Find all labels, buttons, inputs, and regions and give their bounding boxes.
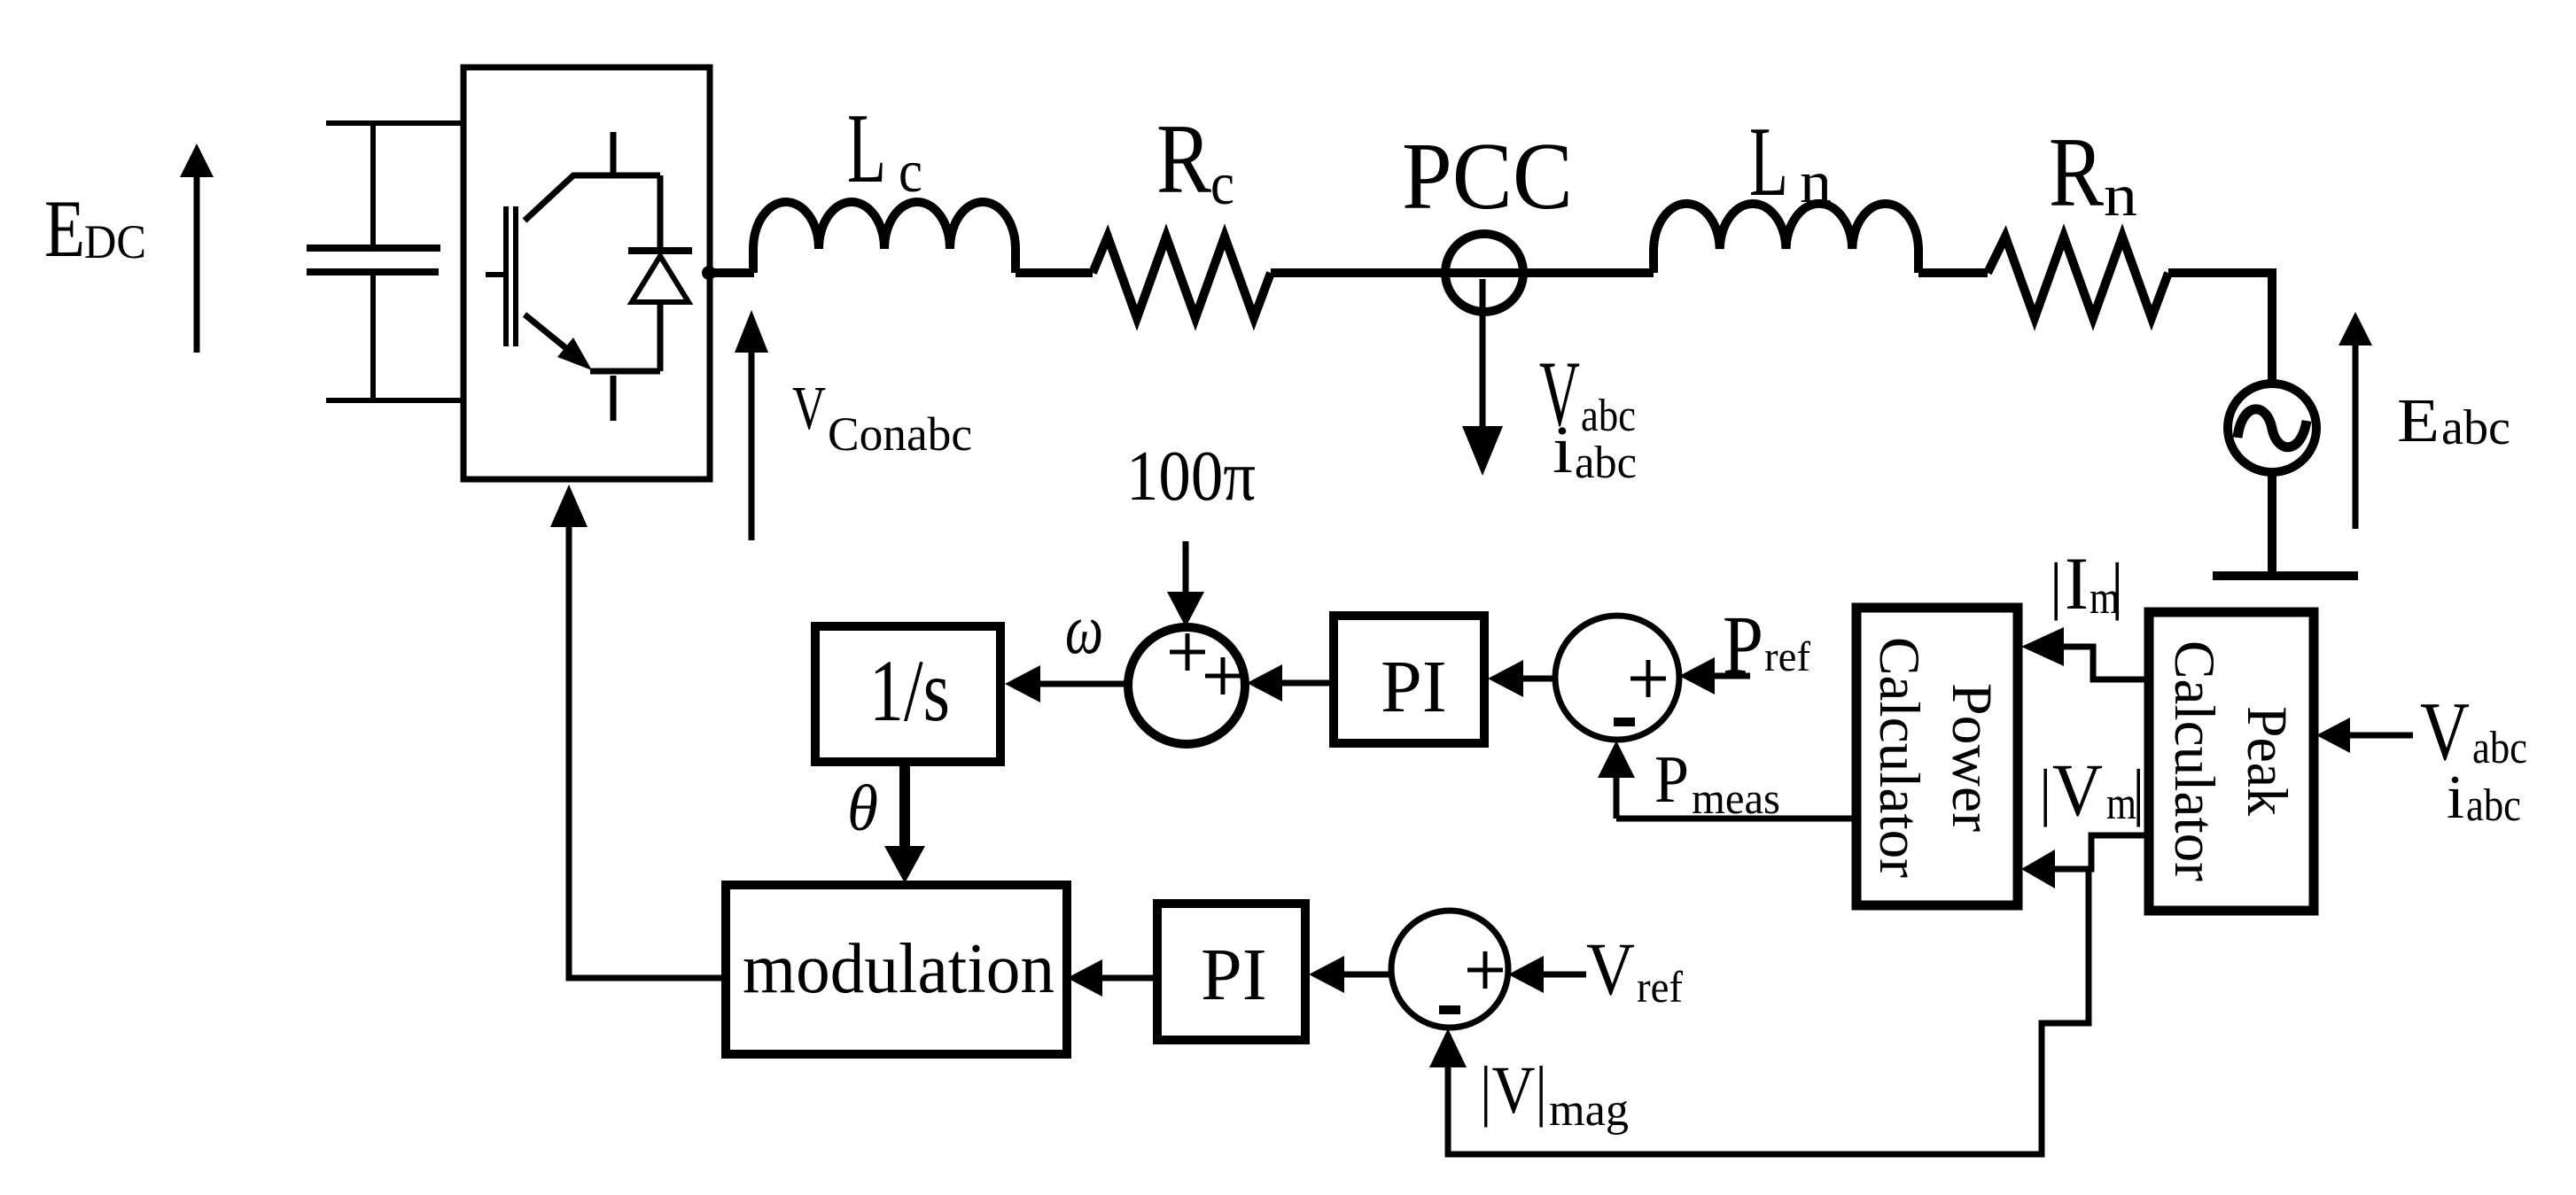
svg-text:c: c <box>899 137 922 205</box>
svg-text:100π: 100π <box>1126 438 1256 516</box>
svg-text:i: i <box>2447 764 2464 832</box>
svg-text:L: L <box>847 94 886 204</box>
svg-text:PI: PI <box>1201 934 1267 1016</box>
svg-text:abc: abc <box>2472 723 2527 773</box>
svg-text:L: L <box>1749 107 1788 217</box>
svg-text:i: i <box>1553 413 1573 487</box>
svg-text:Power: Power <box>1940 683 2004 832</box>
svg-text:|V|: |V| <box>1480 1053 1547 1128</box>
svg-text:ω: ω <box>1065 591 1103 669</box>
svg-text:E: E <box>44 183 85 274</box>
svg-text:n: n <box>2104 161 2137 229</box>
svg-text:1/s: 1/s <box>869 641 950 740</box>
svg-text:R: R <box>1156 105 1211 214</box>
svg-text:c: c <box>1210 150 1234 217</box>
svg-text:I: I <box>2065 542 2089 625</box>
svg-text:Calculator: Calculator <box>1867 637 1931 878</box>
svg-text:n: n <box>1800 148 1832 215</box>
svg-text:meas: meas <box>1692 773 1780 823</box>
svg-text:abc: abc <box>2441 400 2510 455</box>
svg-text:abc: abc <box>2466 780 2521 831</box>
svg-text:Calculator: Calculator <box>2162 640 2226 881</box>
svg-text:V: V <box>2052 749 2103 832</box>
svg-text:ref: ref <box>1764 633 1810 680</box>
svg-text:R: R <box>2049 118 2104 228</box>
svg-text:V: V <box>792 375 826 443</box>
svg-text:θ: θ <box>847 772 878 845</box>
svg-text:abc: abc <box>1575 438 1637 488</box>
svg-text:PCC: PCC <box>1402 124 1573 229</box>
svg-text:|: | <box>2111 550 2123 621</box>
svg-text:P: P <box>1654 742 1689 817</box>
svg-text:mag: mag <box>1549 1085 1629 1136</box>
svg-text:abc: abc <box>1581 391 1636 441</box>
svg-text:DC: DC <box>84 215 146 268</box>
svg-text:E: E <box>2397 387 2440 455</box>
svg-text:Peak: Peak <box>2235 706 2299 816</box>
svg-text:PI: PI <box>1381 646 1447 728</box>
svg-text:|: | <box>2039 757 2051 827</box>
svg-text:|: | <box>2050 550 2062 621</box>
svg-text:V: V <box>1586 927 1635 1011</box>
svg-text:modulation: modulation <box>743 930 1055 1008</box>
svg-text:P: P <box>1723 600 1763 692</box>
svg-text:ref: ref <box>1637 962 1683 1012</box>
svg-text:|: | <box>2132 757 2144 827</box>
svg-text:Conabc: Conabc <box>828 407 972 461</box>
